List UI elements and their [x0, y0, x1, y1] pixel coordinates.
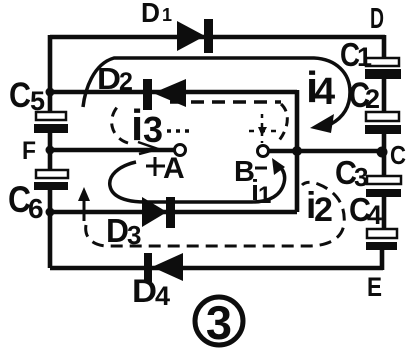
- loop i3 dashed top line: [170, 100, 281, 104]
- arrow on F wire toward A: [138, 142, 158, 154]
- capacitor C3: [366, 176, 401, 197]
- wire right rail seg C1-C2: [382, 78, 387, 113]
- wire bottom (E to bottom-left): [50, 266, 383, 271]
- diode D1: [177, 19, 213, 53]
- wire left rail top segment: [48, 35, 53, 113]
- loop i2 arrow near C6: [78, 187, 90, 221]
- label B with minus: [234, 156, 267, 188]
- svg-text:A: A: [163, 152, 185, 185]
- wire left rail mid segment: [48, 132, 53, 171]
- svg-text:C: C: [9, 76, 31, 115]
- node F junction dot: [46, 146, 55, 155]
- svg-text:3: 3: [143, 109, 163, 150]
- node junction inner vertical / B wire: [292, 146, 302, 156]
- label C6: [8, 179, 44, 224]
- diode D3: [142, 197, 175, 228]
- svg-text:1: 1: [357, 42, 372, 72]
- label i2: [306, 185, 333, 229]
- loop i2 dashed curve: [86, 182, 345, 246]
- loop i3 dashed left arc: [112, 106, 128, 143]
- label +A: [146, 152, 185, 185]
- svg-text:3: 3: [127, 220, 141, 250]
- wire right rail seg C2-C: [382, 133, 387, 177]
- svg-text:5: 5: [30, 86, 45, 116]
- label C2: [349, 76, 380, 115]
- wire inner vertical: [295, 90, 300, 212]
- label C5: [9, 76, 45, 116]
- svg-text:3: 3: [354, 162, 368, 192]
- loop i4 curve with arrow: [83, 58, 350, 133]
- label i1: [251, 175, 271, 209]
- label D1: [141, 0, 172, 28]
- svg-text:i: i: [131, 101, 143, 150]
- wire B to C: [269, 149, 384, 154]
- svg-text:D: D: [106, 212, 129, 249]
- diode D2: [143, 79, 186, 110]
- loop i3 dashed right arc: [277, 104, 287, 143]
- label D3: [106, 212, 141, 250]
- svg-text:2: 2: [365, 84, 380, 114]
- label D2: [97, 61, 133, 96]
- node C junction dot: [377, 147, 388, 158]
- capacitor C2: [365, 112, 401, 134]
- label D4: [132, 273, 170, 311]
- svg-text:C: C: [390, 140, 406, 170]
- wire top (C5 corner to D): [50, 35, 385, 40]
- wire right rail seg D-C1: [382, 35, 387, 60]
- svg-text:D: D: [97, 61, 121, 96]
- label C3: [335, 154, 368, 192]
- label i3: [131, 101, 163, 150]
- dots after i3: [167, 129, 192, 133]
- wire D2 row: [50, 90, 297, 95]
- wire left rail bottom segment: [48, 189, 53, 268]
- wire D3 row: [50, 210, 297, 215]
- svg-text:B: B: [234, 156, 255, 188]
- diode D4: [144, 253, 183, 282]
- svg-text:6: 6: [28, 193, 44, 224]
- svg-text:3: 3: [206, 296, 232, 349]
- svg-text:D: D: [132, 273, 157, 309]
- svg-text:D: D: [370, 3, 384, 35]
- node C5 junction dot: [46, 88, 55, 97]
- svg-text:2: 2: [119, 68, 133, 96]
- svg-text:1: 1: [162, 5, 172, 25]
- capacitor F-C6: [34, 170, 68, 190]
- svg-text:4: 4: [367, 200, 382, 230]
- dashed cross marker above B: [249, 114, 276, 143]
- wire right rail seg C3-C4: [382, 196, 387, 230]
- wire right rail seg C4-E: [380, 249, 385, 270]
- figure number 3 circled: [195, 296, 243, 349]
- loop i1 solid curve with arrow: [110, 158, 285, 202]
- terminal A circle: [175, 145, 186, 156]
- capacitor C5-F: [34, 112, 68, 133]
- label C1: [340, 36, 372, 73]
- svg-text:E: E: [367, 272, 382, 302]
- svg-text:2: 2: [314, 191, 333, 229]
- node C6 junction dot: [46, 208, 55, 217]
- svg-text:4: 4: [155, 281, 170, 311]
- capacitor C1: [365, 58, 401, 79]
- svg-text:4: 4: [314, 71, 335, 113]
- svg-text:1: 1: [258, 182, 271, 209]
- svg-text:D: D: [141, 0, 160, 28]
- label C4: [349, 191, 382, 230]
- terminal B circle: [258, 146, 269, 157]
- capacitor C4: [366, 229, 397, 250]
- label i4: [306, 63, 335, 113]
- wire F to A: [50, 148, 175, 153]
- svg-text:F: F: [22, 137, 36, 165]
